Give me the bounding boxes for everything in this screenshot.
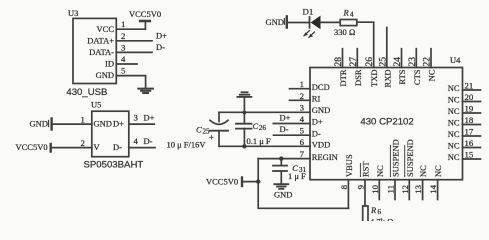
svg-text:430_USB: 430_USB	[66, 87, 107, 98]
stub pin25 RXD	[386, 28, 388, 68]
svg-text:D+: D+	[280, 113, 291, 123]
U4 box	[310, 68, 463, 180]
svg-text:SP0503BAHT: SP0503BAHT	[84, 160, 144, 171]
capacitor C25	[218, 113, 220, 122]
wire U3 pin5	[116, 76, 145, 88]
svg-text:D-: D-	[144, 136, 153, 146]
svg-text:18: 18	[465, 115, 474, 125]
svg-text:DCD: DCD	[312, 82, 330, 92]
svg-text:VCC5V0: VCC5V0	[206, 176, 238, 186]
wire REGIN drop	[257, 159, 259, 182]
U5 box	[92, 111, 129, 157]
svg-text:R: R	[343, 8, 350, 18]
stub pin22 NC	[430, 49, 432, 68]
ground U3	[138, 89, 153, 93]
stub pin16 NC	[463, 147, 481, 149]
svg-text:3: 3	[121, 42, 126, 52]
svg-text:14: 14	[428, 184, 438, 193]
wire U4 pin4 D+	[273, 123, 310, 125]
svg-text:430 CP2102: 430 CP2102	[360, 117, 413, 128]
ground C31	[274, 184, 288, 189]
svg-text:9: 9	[356, 184, 366, 189]
stub pin23 CTS	[415, 49, 417, 68]
svg-text:6: 6	[378, 208, 382, 216]
svg-text:+: +	[209, 132, 214, 142]
svg-text:GND: GND	[30, 118, 48, 128]
svg-text:D+: D+	[156, 31, 167, 41]
wire U3 pin2	[116, 40, 152, 42]
svg-text:NC: NC	[448, 152, 460, 162]
svg-text:5: 5	[121, 66, 126, 76]
svg-text:1 μ F: 1 μ F	[288, 171, 306, 181]
U3 box	[73, 18, 116, 83]
svg-text:DATA-: DATA-	[89, 47, 114, 57]
wire VDD rail pin6	[219, 145, 310, 147]
svg-text:NC: NC	[448, 118, 460, 128]
capacitor C26	[243, 113, 245, 124]
svg-text:4: 4	[350, 11, 354, 19]
svg-text:10: 10	[370, 184, 380, 193]
svg-text:1: 1	[121, 19, 125, 29]
svg-text:10 μ F/16V: 10 μ F/16V	[167, 140, 207, 150]
svg-text:3: 3	[134, 113, 139, 123]
svg-text:VCC5V0: VCC5V0	[16, 142, 48, 152]
svg-text:VDD: VDD	[312, 140, 330, 150]
svg-text:5: 5	[300, 126, 305, 136]
svg-text:27: 27	[349, 57, 359, 67]
stub pin21 NC	[463, 89, 481, 91]
wire U4 pin2	[290, 99, 311, 101]
wire top rail to pin3 GND	[219, 111, 310, 113]
stub pin17 NC	[463, 135, 481, 137]
svg-text:U5: U5	[91, 100, 101, 110]
svg-text:21: 21	[465, 81, 474, 91]
VCC5V0 terminal U5	[50, 144, 52, 152]
stub pin15 NC	[463, 158, 481, 160]
svg-text:7: 7	[300, 149, 305, 159]
wire U4 pin5 D-	[274, 134, 311, 136]
svg-text:20: 20	[465, 92, 474, 102]
svg-text:R: R	[370, 205, 377, 215]
junction rail/gnd	[243, 111, 247, 115]
svg-text:VBUS: VBUS	[344, 154, 354, 177]
svg-text:GND: GND	[96, 70, 114, 80]
svg-text:NC: NC	[375, 165, 385, 177]
svg-text:RTS: RTS	[397, 69, 407, 84]
svg-text:NC: NC	[448, 95, 460, 105]
svg-text:0.1 μ F: 0.1 μ F	[247, 136, 271, 146]
svg-text:DSR: DSR	[353, 69, 363, 86]
stub pin18 NC	[463, 124, 481, 126]
stub pin12 SUSPEND	[408, 180, 410, 200]
GND terminal U5	[48, 121, 50, 127]
wire REGIN pin7	[258, 158, 310, 160]
svg-text:28: 28	[334, 57, 344, 67]
svg-text:330 Ω: 330 Ω	[334, 27, 355, 37]
GND terminal D1	[283, 19, 285, 25]
svg-text:VCC5V0: VCC5V0	[129, 9, 161, 19]
svg-text:D-: D-	[156, 42, 165, 52]
svg-text:D-: D-	[312, 128, 321, 138]
svg-text:CTS: CTS	[412, 69, 422, 85]
svg-text:RST: RST	[361, 161, 371, 177]
wire U3 pin4	[116, 63, 137, 65]
wire R4 to pin26	[357, 22, 374, 67]
svg-text:U4: U4	[450, 55, 461, 65]
stub pin19 NC	[463, 112, 481, 114]
overlines for RST and SUSPENDs	[360, 145, 404, 177]
svg-text:4: 4	[121, 54, 126, 64]
svg-text:22: 22	[423, 57, 433, 67]
svg-text:V: V	[94, 142, 101, 152]
svg-text:D-: D-	[280, 124, 289, 134]
svg-text:VCC: VCC	[97, 24, 115, 34]
wire U5 pin1	[53, 123, 92, 125]
svg-text:NC: NC	[448, 141, 460, 151]
svg-text:NC: NC	[433, 165, 443, 177]
svg-text:REGIN: REGIN	[312, 152, 338, 162]
stub pin24 RTS	[401, 49, 403, 68]
svg-text:NC: NC	[448, 83, 460, 93]
stub pin13 NC	[422, 180, 424, 200]
svg-text:D+: D+	[144, 113, 155, 123]
svg-text:11: 11	[386, 185, 396, 193]
svg-text:GND: GND	[312, 105, 330, 115]
svg-text:13: 13	[413, 184, 423, 193]
svg-text:2: 2	[300, 91, 304, 101]
junction C31/REGIN	[279, 156, 283, 160]
svg-text:24: 24	[393, 57, 403, 67]
svg-text:DTR: DTR	[338, 69, 348, 86]
stub pin11 SUSPEND	[394, 180, 396, 200]
svg-text:4: 4	[134, 136, 139, 146]
svg-text:1: 1	[81, 114, 85, 124]
wire U5 pin3	[129, 123, 155, 125]
svg-text:19: 19	[465, 104, 474, 114]
svg-text:26: 26	[259, 124, 267, 132]
wire pin9 RST to R6	[364, 180, 366, 206]
wire U3 pin3	[116, 51, 152, 53]
svg-text:4: 4	[300, 114, 305, 124]
junction C26/VDD rail	[242, 144, 246, 148]
wire pin8 VBUS	[347, 180, 349, 209]
svg-text:C: C	[196, 125, 202, 135]
svg-text:SUSPEND: SUSPEND	[405, 139, 415, 177]
resistor R4	[340, 20, 357, 26]
svg-text:RXD: RXD	[382, 70, 392, 88]
wire gnd stem to rail	[243, 97, 245, 113]
stub pin28 DTR	[342, 49, 344, 68]
svg-text:15: 15	[465, 150, 474, 160]
svg-text:ID: ID	[105, 59, 114, 69]
svg-text:2: 2	[81, 138, 85, 148]
svg-text:GND: GND	[94, 119, 112, 129]
svg-text:3: 3	[300, 102, 305, 112]
VCC5V0 terminal bottom	[241, 178, 243, 187]
svg-text:D-: D-	[113, 142, 122, 152]
svg-text:17: 17	[465, 127, 474, 137]
svg-text:U3: U3	[68, 8, 78, 18]
svg-text:GND: GND	[274, 190, 292, 200]
wire U5 pin2	[52, 147, 92, 149]
svg-text:NC: NC	[427, 69, 437, 81]
wire D1 to R4	[321, 21, 341, 23]
wire U5 pin4	[129, 147, 155, 149]
svg-text:26: 26	[365, 57, 375, 67]
svg-text:8: 8	[339, 184, 349, 189]
LED D1	[309, 17, 311, 28]
stub pin14 NC	[437, 180, 439, 200]
svg-text:DATA+: DATA+	[87, 35, 114, 45]
junction VCC5V0/VBUS	[256, 179, 260, 183]
stub pin20 NC	[463, 101, 481, 103]
svg-text:25: 25	[378, 57, 388, 67]
wire VCC5V0 to junction	[243, 181, 258, 183]
svg-text:C: C	[253, 121, 259, 131]
svg-text:SUSPEND: SUSPEND	[391, 139, 401, 177]
ground middle (caps)	[237, 92, 251, 97]
wire junction to VBUS rail	[258, 182, 348, 209]
stub pin10 NC	[378, 180, 380, 200]
svg-text:16: 16	[465, 138, 474, 148]
resistor R6	[363, 206, 368, 222]
svg-text:NC: NC	[448, 106, 460, 116]
svg-text:RI: RI	[312, 94, 321, 104]
LED arrows	[304, 31, 315, 38]
svg-text:D1: D1	[303, 7, 314, 17]
svg-text:23: 23	[408, 57, 418, 67]
svg-text:4.7k Ω: 4.7k Ω	[370, 217, 394, 222]
wire U3 pin1	[116, 22, 145, 30]
svg-text:NC: NC	[418, 165, 428, 177]
svg-text:2: 2	[121, 31, 125, 41]
svg-text:TXD: TXD	[369, 70, 379, 87]
svg-text:D+: D+	[113, 119, 124, 129]
svg-text:12: 12	[400, 185, 410, 194]
stub pin27 DSR	[356, 49, 358, 68]
wire GND to D1	[288, 22, 310, 24]
svg-text:D+: D+	[312, 117, 323, 127]
capacitor C31	[280, 159, 282, 166]
wire U4 pin1	[290, 88, 311, 90]
VCC5V0 power bar U3	[140, 20, 150, 23]
svg-text:NC: NC	[448, 129, 460, 139]
svg-text:1: 1	[300, 79, 304, 89]
svg-text:6: 6	[300, 137, 305, 147]
svg-text:GND: GND	[266, 17, 284, 27]
